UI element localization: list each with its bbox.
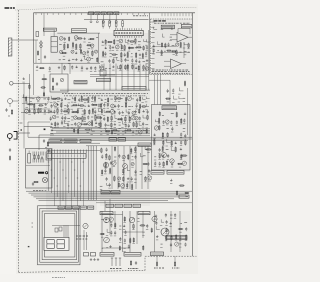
wire right group bus bbox=[86, 145, 150, 147]
jack connection wire bbox=[18, 132, 31, 134]
right wire group bbox=[88, 146, 90, 200]
lower mid label box bbox=[138, 143, 151, 146]
top text row right of IC bbox=[133, 15, 135, 17]
connector number 5 bbox=[44, 128, 46, 130]
wire long low bus bbox=[96, 202, 192, 204]
wire inter bus 1 bbox=[52, 128, 150, 130]
left margin lighter bbox=[0, 0, 16, 282]
ribbon continuation bbox=[53, 195, 55, 206]
power pin group 2 bbox=[130, 261, 131, 264]
LAB label text bbox=[38, 172, 44, 174]
wire RF bus bbox=[57, 32, 100, 34]
RF amplifier label box bbox=[71, 29, 86, 33]
page fold dotted line bbox=[15, 6, 197, 10]
wire right column link bbox=[149, 79, 170, 81]
wire mid-left bus bbox=[21, 111, 55, 113]
power vertical wire 1 bbox=[101, 211, 103, 252]
SSB dashed box bottom bbox=[151, 74, 193, 76]
SSB dashed box top bbox=[151, 18, 193, 20]
display module bbox=[44, 237, 69, 250]
left edge small parts bbox=[20, 122, 23, 124]
power vertical wire 3 bbox=[129, 211, 131, 252]
wire tuner bottom bus bbox=[34, 62, 100, 64]
IC U1 main radio IC bbox=[114, 30, 143, 35]
right low label box bbox=[179, 195, 189, 198]
wire inter bus 3 bbox=[50, 138, 192, 140]
below-dash parts right bbox=[174, 256, 176, 262]
trimmer capacitors row bbox=[90, 21, 92, 23]
PCB dashed outline step bbox=[144, 256, 146, 270]
power top label boxes bbox=[100, 212, 113, 215]
power pins bbox=[111, 258, 113, 266]
tuner lower clutter bbox=[36, 65, 103, 72]
transistor Q7 bbox=[170, 159, 174, 163]
display right parts bbox=[84, 253, 89, 257]
display top wires bbox=[52, 224, 80, 226]
IO connector block bbox=[46, 152, 52, 160]
right vertical wires bbox=[154, 211, 156, 252]
inner sub box bbox=[39, 134, 54, 136]
display stub marks bbox=[32, 222, 34, 224]
bus lines fanout bbox=[26, 190, 192, 192]
right label box bbox=[151, 252, 164, 256]
SSB label box 2 bbox=[181, 25, 192, 28]
IO inner wire bbox=[26, 165, 50, 167]
low bus label boxes mid bbox=[106, 204, 114, 207]
wire vertical feed B bbox=[148, 30, 150, 90]
AF label box bbox=[162, 106, 177, 110]
IF bus pin text bbox=[62, 93, 64, 95]
transistor Q13 bbox=[104, 217, 110, 223]
tuner stage clutter bbox=[59, 36, 98, 64]
power link wires bbox=[102, 214, 123, 216]
potentiometer VR1 bbox=[8, 99, 13, 104]
wire vertical feed A bbox=[98, 33, 100, 63]
left margin part 1 bbox=[9, 148, 11, 150]
right lower sparse bbox=[170, 179, 189, 196]
op-amp U2 bbox=[177, 33, 188, 43]
display wiring loops bbox=[38, 206, 81, 265]
left IO box bbox=[26, 149, 53, 189]
power vertical wire 4 bbox=[109, 211, 111, 235]
SSB left stub column bbox=[151, 21, 155, 23]
bus label boxes row bbox=[58, 206, 64, 209]
display label text bbox=[76, 235, 78, 237]
wire above connector bbox=[47, 149, 100, 151]
IO label text row bbox=[33, 190, 35, 192]
ribbon wires bbox=[48, 158, 50, 191]
wire inter bus 2 bbox=[28, 136, 192, 138]
wire antenna to RF input bbox=[12, 39, 38, 41]
SSB top text row2 bbox=[152, 69, 155, 71]
AF box clutter bbox=[153, 111, 187, 167]
osc2 label box bbox=[97, 78, 111, 81]
wire mid link bbox=[50, 127, 100, 129]
transistor Q16 bbox=[152, 216, 157, 221]
display vertical wires bbox=[83, 230, 85, 250]
right column parts bbox=[165, 81, 186, 103]
transistor Q14 bbox=[104, 237, 110, 243]
main frame right border bbox=[191, 13, 193, 256]
IF transformer T1 bbox=[51, 37, 57, 53]
ferrite rod antenna L1 bbox=[8, 38, 12, 56]
SSB top ticks bbox=[161, 13, 163, 16]
band switch label boxes row bbox=[89, 12, 94, 15]
bus drops bbox=[104, 201, 106, 211]
SSB bottom text row bbox=[152, 71, 155, 73]
SSB wiring bbox=[183, 42, 185, 58]
SSB dashed box left bbox=[150, 19, 152, 75]
IO lower parts bbox=[34, 181, 37, 182]
regulator label box bbox=[166, 236, 187, 240]
center dense clutter bbox=[50, 95, 103, 128]
PCB dashed outline left bbox=[17, 10, 19, 273]
bottom margin lighter bbox=[0, 274, 200, 282]
power clutter bbox=[100, 216, 149, 251]
power transistor Q17 bbox=[161, 228, 169, 236]
regulator clutter bbox=[151, 213, 187, 247]
SSB clutter bbox=[152, 41, 189, 55]
mid double wires bbox=[90, 73, 149, 75]
headphone jack J2 bbox=[7, 134, 12, 139]
main frame top border bbox=[34, 12, 196, 14]
wire left drop 1 bbox=[28, 121, 50, 123]
oscillator label box bbox=[74, 81, 87, 84]
center low clutter bbox=[51, 128, 95, 135]
power label row bbox=[100, 253, 114, 257]
AF amplifier box bbox=[152, 105, 191, 171]
IO parts bbox=[34, 155, 35, 159]
op-amp U3 bbox=[171, 59, 182, 69]
inner sub box parts bbox=[43, 139, 45, 141]
connector jack J1 bbox=[10, 82, 14, 86]
ribbon tie marks bbox=[48, 161, 49, 163]
SSB section separator bbox=[149, 13, 151, 75]
lower-left section box top bbox=[24, 126, 52, 128]
SSB title text bbox=[154, 20, 158, 22]
below-dash parts left bbox=[156, 256, 158, 262]
decoder label box bbox=[122, 87, 146, 91]
tuner input parts bbox=[36, 32, 39, 37]
power vertical wire 2 bbox=[122, 211, 124, 252]
left column vertical wires bbox=[23, 83, 25, 148]
top border connection ticks bbox=[35, 13, 37, 15]
center dense clutter 2 bbox=[99, 96, 149, 136]
PCB dashed outline bottom left bbox=[18, 271, 145, 273]
wire driver top bus bbox=[47, 142, 100, 144]
IF section clutter bbox=[100, 38, 150, 71]
driver label box row bbox=[49, 139, 62, 143]
left margin part 2 bbox=[9, 157, 10, 160]
transistor Q6 bbox=[162, 153, 167, 158]
oscillator coils row bbox=[102, 21, 104, 26]
SSB upper parts bbox=[152, 27, 173, 41]
LCD driver connector bbox=[47, 154, 86, 159]
lower mid vertical wires bbox=[111, 146, 113, 189]
SSB header text bbox=[154, 22, 157, 24]
right lower label boxes bbox=[151, 171, 164, 175]
motor M1 bbox=[42, 177, 47, 182]
inter-band vertical wires bbox=[103, 64, 105, 91]
SSB label box 1 bbox=[161, 25, 174, 29]
left middle clutter bbox=[23, 94, 50, 114]
bus small label boxes bbox=[109, 138, 117, 141]
antenna section label box bbox=[43, 28, 56, 31]
paper tint main area bbox=[16, 4, 198, 274]
meter label boxes bbox=[101, 191, 110, 194]
lower mid clutter bbox=[100, 146, 152, 190]
main frame left border upper bbox=[33, 13, 35, 64]
title text top-left bbox=[5, 7, 10, 9]
left margin small parts bbox=[5, 109, 7, 111]
band switch stubs bbox=[90, 15, 92, 20]
wires SSB to AF bbox=[154, 75, 156, 105]
IO pin tick rows bbox=[32, 152, 34, 156]
transistor Q15 bbox=[129, 217, 135, 223]
LCD label a bbox=[28, 246, 30, 248]
power pin labels bbox=[110, 268, 112, 270]
transistor Q12 bbox=[83, 223, 88, 228]
wire band switch bus bbox=[84, 19, 149, 21]
bottom caption text bbox=[52, 277, 54, 279]
wire long IF bus bbox=[60, 89, 150, 91]
seven segment digits 88 bbox=[47, 239, 55, 243]
PCB dashed outline bottom right bbox=[145, 255, 197, 257]
left mid link wires bbox=[22, 97, 50, 99]
transistor Q5 bbox=[154, 126, 158, 130]
transistor Q11 bbox=[123, 164, 128, 169]
sub box mid bbox=[100, 70, 106, 76]
oscillator sub box bbox=[50, 74, 68, 92]
scan wash regions bbox=[50, 33, 148, 72]
left middle upper clutter bbox=[22, 77, 47, 97]
transistor Q10 bbox=[103, 162, 108, 167]
paper background bbox=[0, 0, 200, 282]
electrolytic C30 bbox=[28, 154, 31, 164]
